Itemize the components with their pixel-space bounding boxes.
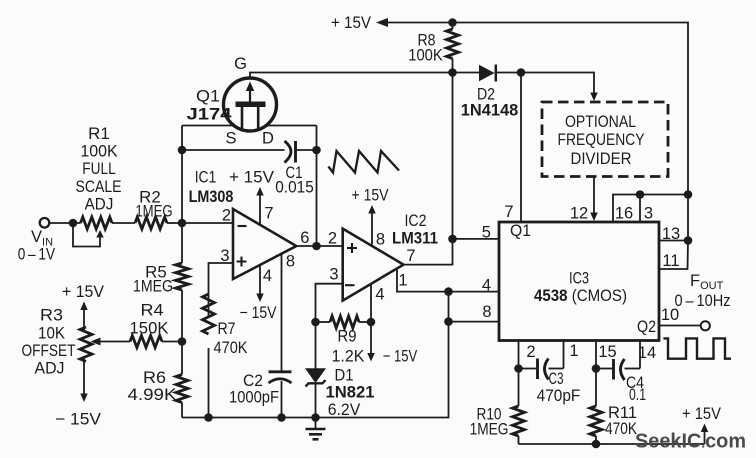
svg-text:4.99K: 4.99K [128, 386, 177, 404]
svg-text:2: 2 [222, 207, 231, 225]
svg-text:C2: C2 [243, 372, 263, 390]
svg-text:D: D [262, 130, 274, 148]
svg-text:2: 2 [328, 230, 337, 248]
svg-text:470K: 470K [214, 339, 248, 357]
svg-text:8: 8 [286, 253, 295, 271]
svg-text:470pF: 470pF [537, 387, 581, 405]
svg-text:7: 7 [264, 205, 273, 223]
svg-text:R6: R6 [143, 369, 166, 387]
svg-text:+ 15V: + 15V [229, 169, 274, 187]
svg-text:R7: R7 [218, 320, 236, 338]
svg-text:1: 1 [569, 342, 578, 360]
svg-text:470K: 470K [605, 420, 637, 438]
svg-text:IC1: IC1 [195, 169, 217, 187]
svg-text:+ 15V: + 15V [62, 283, 104, 301]
svg-text:J174: J174 [187, 106, 233, 124]
svg-text:R3: R3 [40, 307, 63, 325]
svg-text:100K: 100K [408, 47, 443, 65]
svg-text:3: 3 [644, 205, 653, 223]
svg-text:13: 13 [662, 225, 680, 243]
svg-text:4: 4 [375, 286, 384, 304]
svg-text:11: 11 [662, 252, 679, 270]
svg-text:R9: R9 [338, 328, 357, 346]
svg-text:+ 15V: + 15V [352, 187, 389, 205]
svg-text:1.2K: 1.2K [332, 348, 365, 366]
svg-text:16: 16 [615, 205, 633, 223]
svg-text:Q2: Q2 [637, 318, 656, 336]
svg-text:OFFSET: OFFSET [22, 342, 76, 360]
svg-text:SeekIC.com: SeekIC.com [635, 430, 746, 453]
svg-text:G: G [234, 55, 247, 73]
svg-text:4538 (CMOS): 4538 (CMOS) [534, 287, 627, 305]
svg-text:0 – 10Hz: 0 – 10Hz [675, 292, 731, 310]
svg-text:1000pF: 1000pF [229, 389, 279, 407]
svg-text:7: 7 [504, 203, 513, 221]
svg-text:100K: 100K [80, 143, 117, 161]
svg-text:+ 15V: + 15V [682, 405, 721, 423]
svg-text:C3: C3 [549, 370, 564, 388]
svg-text:150K: 150K [130, 320, 169, 338]
svg-text:1MEG: 1MEG [470, 421, 509, 439]
svg-text:R1: R1 [88, 125, 110, 143]
svg-text:15: 15 [598, 343, 616, 361]
svg-text:0.1: 0.1 [629, 386, 646, 404]
svg-text:4: 4 [263, 267, 272, 285]
svg-text:Q1: Q1 [510, 222, 531, 240]
svg-text:ADJ: ADJ [85, 196, 114, 214]
svg-text:+ 15V: + 15V [331, 14, 371, 32]
svg-text:5: 5 [482, 224, 491, 242]
svg-text:1N821: 1N821 [326, 384, 375, 402]
svg-text:IC3: IC3 [569, 270, 589, 288]
svg-text:R4: R4 [141, 302, 164, 320]
svg-text:ADJ: ADJ [35, 360, 65, 378]
svg-text:8: 8 [376, 231, 385, 249]
svg-text:14: 14 [638, 344, 656, 362]
svg-text:FREQUENCY: FREQUENCY [558, 131, 645, 149]
svg-text:8: 8 [482, 303, 491, 321]
svg-text:S: S [225, 130, 236, 148]
svg-text:LM308: LM308 [189, 188, 234, 206]
svg-text:1MEG: 1MEG [135, 203, 172, 221]
svg-text:12: 12 [570, 205, 588, 223]
svg-text:1MEG: 1MEG [133, 278, 173, 296]
svg-text:DIVIDER: DIVIDER [571, 150, 632, 168]
svg-text:1N4148: 1N4148 [461, 102, 519, 120]
svg-text:− 15V: − 15V [383, 348, 418, 366]
svg-text:4: 4 [482, 277, 491, 295]
svg-text:7: 7 [406, 247, 415, 265]
svg-text:SCALE: SCALE [76, 178, 122, 196]
svg-text:OPTIONAL: OPTIONAL [565, 113, 636, 131]
svg-text:IC2: IC2 [405, 212, 427, 230]
svg-text:6: 6 [300, 229, 309, 247]
svg-text:0.015: 0.015 [275, 179, 314, 197]
svg-text:FULL: FULL [82, 160, 115, 178]
svg-text:Q1: Q1 [196, 88, 220, 106]
svg-text:6.2V: 6.2V [328, 401, 361, 419]
svg-text:3: 3 [329, 266, 338, 284]
svg-text:0 – 1V: 0 – 1V [18, 246, 55, 264]
svg-text:− 15V: − 15V [55, 411, 101, 429]
svg-text:2: 2 [526, 343, 535, 361]
svg-text:10K: 10K [38, 325, 65, 343]
svg-text:1: 1 [398, 272, 407, 290]
svg-text:3: 3 [220, 247, 229, 265]
svg-text:− 15V: − 15V [240, 304, 277, 322]
svg-text:LM311: LM311 [392, 230, 438, 248]
svg-text:D1: D1 [335, 367, 354, 385]
